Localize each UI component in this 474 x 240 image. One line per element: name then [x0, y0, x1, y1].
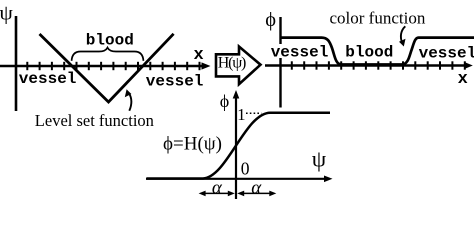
block arrow H(psi) — [216, 47, 261, 85]
left alpha dimension arrow — [202, 192, 233, 194]
svg-text:blood: blood — [345, 44, 393, 62]
arrow from caption to ramp — [401, 26, 405, 43]
right graph axis ticks — [292, 61, 465, 69]
svg-text:Level set function: Level set function — [35, 111, 154, 130]
svg-text:ψ: ψ — [0, 1, 13, 25]
svg-text:ϕ=H(ψ): ϕ=H(ψ) — [163, 134, 222, 155]
svg-text:ϕ: ϕ — [220, 91, 229, 111]
svg-text:vessel: vessel — [146, 73, 204, 91]
sigmoid H(psi) curve — [147, 113, 331, 179]
svg-text:α: α — [251, 177, 262, 198]
arrow from caption to V vertex — [129, 93, 131, 111]
svg-text:ϕ: ϕ — [265, 9, 276, 31]
color function curve — [281, 38, 474, 65]
left graph vertical axis — [15, 16, 18, 111]
svg-text:0: 0 — [241, 158, 250, 178]
svg-text:vessel: vessel — [19, 70, 77, 88]
svg-text:x: x — [194, 46, 204, 65]
right alpha dimension arrow — [241, 192, 274, 194]
bottom graph horizontal psi axis — [146, 178, 328, 180]
right graph vertical axis upper segment — [279, 17, 281, 44]
svg-text:blood: blood — [86, 32, 134, 50]
level set V curve — [40, 34, 174, 102]
svg-text:vessel: vessel — [419, 45, 474, 63]
right graph horizontal x axis — [265, 64, 468, 66]
dotted line at 1 — [246, 112, 262, 114]
left graph horizontal x axis — [0, 65, 204, 67]
svg-text:vessel: vessel — [271, 43, 329, 61]
svg-text:H(ψ): H(ψ) — [218, 55, 247, 72]
left graph axis ticks — [27, 62, 199, 70]
svg-text:ψ: ψ — [312, 146, 327, 171]
svg-text:x: x — [458, 70, 468, 89]
bottom graph vertical axis arrowhead — [233, 90, 240, 99]
left graph x axis arrowhead — [202, 62, 211, 69]
bottom graph vertical axis — [235, 96, 237, 199]
right graph vertical axis lower segment — [279, 58, 281, 108]
svg-text:color function: color function — [330, 9, 426, 28]
svg-text:α: α — [212, 177, 223, 198]
right graph x axis arrowhead — [464, 62, 473, 69]
brace over blood interval — [72, 48, 144, 61]
svg-text:1: 1 — [237, 105, 246, 124]
bottom graph horizontal axis arrowhead — [324, 176, 333, 183]
